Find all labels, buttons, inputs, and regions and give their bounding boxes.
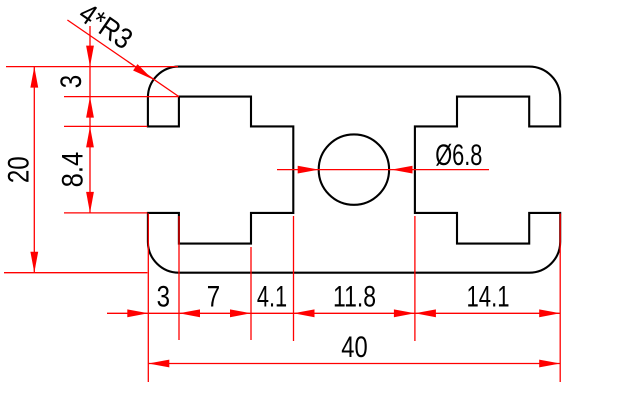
dimension line Ø6.8 [277, 169, 489, 171]
svg-text:40: 40 [341, 331, 367, 364]
leader 4*R3 [67, 20, 178, 97]
extension vertical x=3mm [178, 216, 180, 340]
dimension line 40 [148, 363, 560, 365]
profile outline (aluminium extrusion cross-section) [148, 67, 560, 273]
extension line at slot bottom [64, 212, 147, 214]
extension vertical x=40mm [559, 214, 561, 383]
dimension row 3,7,4.1,11.8,14.1 [107, 312, 560, 314]
svg-text:8.4: 8.4 [56, 152, 89, 188]
dimension line 20 [33, 67, 35, 273]
extension vertical x=25.9mm [414, 216, 416, 341]
svg-text:4.1: 4.1 [257, 281, 287, 314]
extension line at 3mm [64, 96, 179, 98]
dimension arrows 8.4 [86, 126, 94, 147]
extension line top (y=0mm) [6, 66, 178, 68]
extension vertical x=0mm [147, 214, 149, 383]
extension vertical x=10mm [250, 247, 252, 340]
extension line bottom (y=20mm) [4, 272, 147, 274]
extension line at slot top [64, 125, 147, 127]
svg-text:14.1: 14.1 [467, 281, 510, 314]
svg-text:3: 3 [157, 281, 170, 314]
extension vertical x=14.1mm [293, 216, 295, 341]
svg-text:Ø6.8: Ø6.8 [435, 139, 482, 172]
dimension line 3 / 8.4 (shared vertical) [89, 26, 91, 213]
svg-text:7: 7 [207, 281, 220, 314]
svg-text:11.8: 11.8 [333, 281, 376, 314]
center hole circle Ø6.8 [319, 134, 389, 204]
svg-text:20: 20 [3, 156, 36, 183]
svg-text:3: 3 [55, 75, 88, 88]
